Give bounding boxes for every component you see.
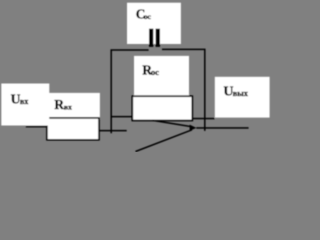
- wire feedback right: top segment and right vertical: [162, 49, 205, 130]
- wire feedback left: top segment and left vertical: [111, 50, 148, 133]
- capacitor C_os label box: [127, 3, 181, 44]
- wire output: [196, 127, 248, 129]
- node R_os label box: [134, 56, 189, 97]
- op-amp arrowhead: [190, 125, 197, 131]
- op-amp input line lower: [136, 130, 193, 152]
- op-amp input line upper: [152, 120, 192, 127]
- node output label box U_vyh: [215, 77, 270, 118]
- resistor R_os body: [132, 96, 192, 120]
- capacitor C_os plates: [149, 29, 153, 47]
- resistor R_vx body: [47, 118, 99, 140]
- wire U_vx to R_vx body: [26, 126, 47, 128]
- wire R_vx body to summing node: [99, 130, 127, 132]
- node input label box U_vx: [1, 84, 49, 126]
- wire output node to U_vyh: [192, 118, 214, 120]
- node R_vx label box: [45, 93, 100, 120]
- wire left vertical to R_os body: [111, 116, 131, 118]
